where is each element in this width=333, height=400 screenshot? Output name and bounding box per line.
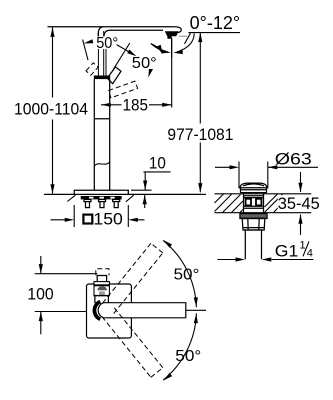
swivel arc 0-12 left bbox=[151, 44, 168, 53]
svg-text:150: 150 bbox=[93, 210, 123, 229]
top view handle body bbox=[94, 282, 109, 296]
svg-text:185: 185 bbox=[123, 96, 149, 115]
svg-text:50°: 50° bbox=[132, 55, 157, 72]
mounting bar bbox=[81, 196, 122, 199]
svg-text:G1: G1 bbox=[275, 241, 299, 260]
svg-text:Ø63: Ø63 bbox=[275, 150, 312, 169]
top view spout dashed up bbox=[102, 243, 163, 313]
top view spout bend crescent bbox=[93, 300, 101, 321]
top view spout bbox=[98, 303, 186, 318]
svg-text:4: 4 bbox=[307, 247, 313, 259]
svg-text:1: 1 bbox=[300, 240, 306, 252]
top view neck bbox=[95, 296, 109, 303]
svg-text:100: 100 bbox=[27, 285, 54, 304]
handle solid right bbox=[107, 67, 121, 84]
svg-text:35-45: 35-45 bbox=[278, 194, 320, 213]
spout tip bbox=[172, 27, 182, 33]
svg-text:50°: 50° bbox=[96, 35, 118, 52]
svg-text:977-1081: 977-1081 bbox=[167, 125, 233, 144]
svg-text:50°: 50° bbox=[174, 267, 200, 284]
swivel arc 0-12 right bbox=[177, 33, 194, 52]
deck lines bbox=[215, 194, 312, 213]
leader left 50 bbox=[83, 40, 88, 61]
dim 35-45 bbox=[300, 172, 302, 235]
dim 977-1081 bbox=[199, 33, 201, 193]
lever bbox=[98, 31, 106, 76]
drain flange bbox=[240, 214, 267, 219]
leader arrow below 50-2 bbox=[149, 69, 151, 75]
handle dashed lower-right bbox=[108, 81, 137, 98]
base plate bbox=[74, 190, 128, 194]
dim 185 bbox=[101, 39, 172, 108]
dim 1000-1104 bbox=[52, 27, 54, 193]
dim 100 bbox=[35, 256, 98, 334]
label 50 second bbox=[132, 56, 157, 69]
label 50 first bbox=[96, 37, 119, 50]
arc lever to right bbox=[151, 44, 162, 53]
leader right 50 bbox=[113, 43, 132, 69]
top view handle top bbox=[97, 276, 106, 282]
svg-text:50°: 50° bbox=[175, 348, 201, 365]
floor line bbox=[44, 193, 206, 195]
rotation arc top bbox=[163, 240, 196, 307]
mounting studs bbox=[84, 199, 120, 207]
swivel ref line bbox=[172, 33, 191, 57]
top view spout dashed down bbox=[102, 307, 163, 377]
svg-text:0°-12°: 0°-12° bbox=[190, 13, 241, 33]
svg-text:1000-1104: 1000-1104 bbox=[14, 99, 88, 118]
handle dashed left bbox=[86, 63, 98, 75]
centerline tick bbox=[186, 309, 206, 311]
column bbox=[94, 79, 109, 190]
break mark bbox=[94, 162, 109, 166]
drain nut bbox=[242, 219, 265, 231]
top view plate bbox=[87, 284, 132, 338]
floor hatch ticks bbox=[67, 195, 133, 202]
deck hatch bbox=[215, 194, 284, 213]
column cap bbox=[94, 76, 110, 80]
drain cap rim bbox=[241, 188, 267, 193]
dim square150 bbox=[51, 205, 145, 227]
svg-text:10: 10 bbox=[149, 153, 166, 172]
drain tailpipe bbox=[244, 230, 263, 259]
rotation arc bottom bbox=[163, 313, 196, 380]
drain cap bbox=[240, 183, 267, 188]
top view handle dashed cap bbox=[96, 269, 109, 276]
dim G1 arrows bbox=[217, 259, 313, 261]
drain body bbox=[244, 193, 264, 213]
spout bbox=[48, 27, 175, 37]
aerator bbox=[165, 31, 179, 38]
